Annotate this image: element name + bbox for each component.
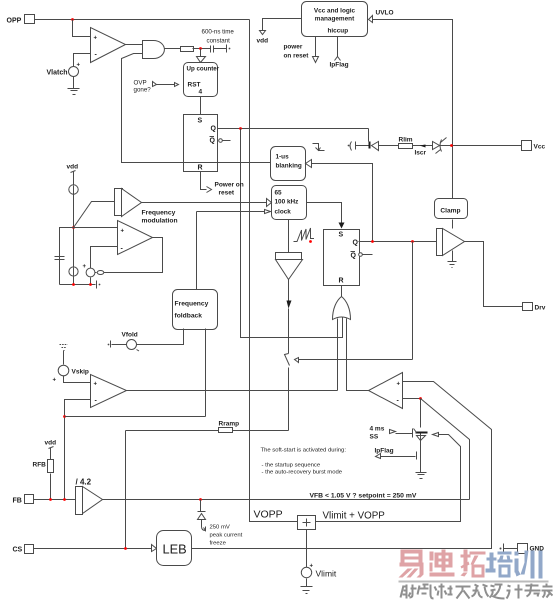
svg-text:modulation: modulation [142,218,178,225]
label VOPP [254,509,283,521]
watermark char xun [515,551,543,579]
block Clamp [435,199,468,219]
buffer LEB input [152,545,157,552]
svg-text:vdd: vdd [67,164,79,171]
wire Q1 bus down to OR [241,129,343,338]
wire driver junction down [412,242,414,360]
node OPP junction [71,18,74,21]
wire OPP row [35,19,250,21]
svg-text:UVLO: UVLO [376,10,394,17]
gate OR [333,297,351,320]
node latch2 Q blanking junction [371,240,374,243]
diode D1 [369,142,379,151]
watermark subtitle she pin he tian xian she ji zhuan jia [401,584,553,599]
ground driver [448,251,457,268]
svg-text:vdd: vdd [45,440,57,447]
svg-text:Q: Q [210,138,216,145]
svg-text:OPP: OPP [7,18,22,25]
resistor Rlim [399,137,413,149]
wire I1 to junction [73,195,75,228]
svg-text:Rlim: Rlim [399,137,413,144]
wire AND out to resistor [165,48,181,50]
svg-text:+: + [77,63,81,69]
watermark char tuo [461,550,486,578]
wire junction to op-amp2 plus [74,227,118,229]
svg-text:on reset: on reset [284,53,310,60]
block Up counter [184,63,220,97]
wire cs comp minus row [403,398,421,400]
bubble latch1 Qbar [219,139,231,143]
wire OVP to RST [157,83,179,87]
waveform sawtooth [294,228,315,243]
wire clock to ramp buffer [288,220,290,253]
svg-text:Iscr: Iscr [415,150,427,157]
svg-text:S: S [339,232,344,239]
node CS rramp junction [124,547,127,550]
svg-text:R: R [339,278,344,285]
rail bar symbol mid [97,281,101,289]
arrow Iscr [415,145,427,157]
node vskip minus junction [63,415,66,418]
svg-text:Vcc and logic: Vcc and logic [314,8,356,15]
buffer blanking input [306,160,312,168]
svg-text:VOPP: VOPP [254,509,283,521]
wire foldback to clock input2 [196,212,198,290]
arrow into Up counter [197,57,206,63]
wire switch control arrow [295,358,413,363]
wire latch1 Q row [218,128,369,130]
wire op-amp out to AND [126,44,143,46]
label vdd fb [45,440,57,449]
wire setpoint diagonal to vfb row [421,399,470,500]
label UVLO [376,10,394,17]
resistor RFB [33,460,54,473]
svg-text:LEB: LEB [163,542,187,557]
pin CS [13,545,34,554]
node Q1 bus junction [239,127,242,130]
node FB rfb junction [49,498,52,501]
svg-text:Power on: Power on [215,182,244,189]
node vfb diode junction [199,498,202,501]
capacitor 600ns [211,46,214,53]
resistor 600ns [181,47,194,52]
svg-text:4 ms: 4 ms [370,426,385,433]
current source I1 [69,185,78,195]
label soft-start note [261,448,347,476]
svg-text:Drv: Drv [535,305,546,312]
svg-text:vdd: vdd [257,38,269,45]
wire cs riser [125,431,127,549]
ground below Vlatch [68,89,80,95]
label VFB setpoint [310,493,417,500]
switch soft-start [285,354,290,431]
block LEB [157,531,192,566]
svg-text:OVP: OVP [134,80,147,87]
label power on reset [284,44,310,60]
wire OR input right [347,319,369,391]
svg-text:reset: reset [219,190,235,197]
capacitor hiccup [348,142,369,151]
wire bottom rail [60,284,96,286]
wire vskip comp minus [65,400,91,500]
svg-text:Rramp: Rramp [219,421,240,428]
svg-text:foldback: foldback [175,313,203,320]
wire OR input left [337,319,339,391]
wire Vlatch to ground [73,77,75,89]
wire I2 to rail [73,229,75,285]
pin Vcc [522,141,546,151]
wire ss transistor top [420,399,422,428]
svg-text:Frequency: Frequency [142,210,176,217]
wire junction diagonal to buffer [74,202,115,228]
pin OPP [7,15,35,25]
pin Drv [523,303,546,312]
svg-text:Up counter: Up counter [187,66,220,73]
wire IpFlag arrow up [335,37,341,61]
svg-text:Q: Q [351,253,357,260]
op-amp U1 OPP latch comparator [91,28,126,63]
label OVP gone? [134,80,152,94]
wire blanking input from vcc bus [312,164,373,242]
wire counter to latch1 S [200,97,202,115]
wire junction to foldback pin [65,416,206,418]
SECTION: watermark [399,550,553,599]
wire ground to vskip [63,351,65,365]
rail bar vfold [108,341,127,348]
svg-text:management: management [315,16,355,23]
svg-text:4: 4 [199,89,203,96]
svg-text:250 mV: 250 mV [210,525,230,531]
wire blanking row crossing latch1 [181,162,271,164]
node setpoint junction [419,397,422,400]
symbol feedback ellipse [95,271,104,275]
node FB vskip junction [63,498,66,501]
diode 250mV freeze [198,500,206,531]
bubble latch2 Qbar [359,253,373,257]
wire ramp to switch with arrow [287,280,292,354]
op-amp U6 current sense comparator [369,373,403,409]
wire vskip comp out to OR [127,390,338,392]
svg-text:Vskip: Vskip [72,369,89,376]
svg-text:CS: CS [13,547,23,554]
wire vskip to comparator [64,376,91,383]
divider /4.2 [76,478,103,515]
svg-text:- the startup sequence: - the startup sequence [262,463,321,469]
svg-text:+: + [310,564,314,570]
svg-text:VFB < 1.05 V ? setpoint = 250: VFB < 1.05 V ? setpoint = 250 mV [310,493,417,500]
label Frequency modulation [142,210,178,225]
source Vfold [122,332,140,352]
label vdd top [257,38,269,45]
wire junction left branch [60,228,74,285]
transistor QSS soft-start clamp [413,429,428,452]
wire fm buffer out to clock [142,202,267,204]
wire power on reset arrow [313,37,319,63]
label Power on reset [215,182,244,197]
wire OPP to op-amp + [73,20,91,37]
svg-text:RFB: RFB [33,462,47,469]
svg-text:RST: RST [188,82,201,89]
label 250 mV peak current freeze [210,525,243,547]
svg-text:1-us: 1-us [276,154,290,161]
wire latch2 Q row [359,241,437,243]
svg-text:IpFlag: IpFlag [330,62,349,69]
node rail source [89,283,92,286]
AND gate [143,41,165,59]
wire cap to rail [214,48,227,50]
label vdd mid [67,164,79,173]
svg-text:Clamp: Clamp [440,208,460,215]
wire UVLO [373,20,453,199]
thyristor Iscr clamp [433,138,522,154]
wire vdd to RFB [50,448,52,460]
svg-text:freeze: freeze [210,541,227,547]
label IpFlag top [330,62,349,69]
svg-text:constant: constant [207,38,231,45]
node driver input junction [411,240,414,243]
buffer ramp down triangle [276,253,303,280]
arrow clock input2 [197,210,271,214]
source Vlatch [47,63,81,77]
wire foldback to vfold [137,329,184,345]
svg-text:S: S [198,118,203,125]
wire op-amp minus to Vlatch [74,54,91,67]
wire IpFlag gate [376,452,417,460]
svg-text:R: R [198,165,203,172]
svg-text:power: power [284,44,303,51]
svg-text:+: + [53,378,57,384]
capacitor modulation [55,257,65,260]
latch U2 SR latch1 [184,115,218,172]
wire OPP bus vertical [250,20,298,522]
current source I2 [69,267,78,276]
wire cs comp plus path [192,382,492,549]
wire junction to counter arrow [200,49,202,57]
svg-text:+: + [397,382,401,388]
block Frequency foldback [173,290,218,330]
wire op-amp2 minus to source [91,247,118,269]
node 600ns junction [199,47,202,50]
wire resistor to cap [193,48,211,50]
svg-text:SS: SS [370,434,379,441]
ground ss [416,473,427,479]
svg-text:100 kHz: 100 kHz [275,199,299,206]
svg-text:/ 4.2: / 4.2 [76,478,92,487]
wire blanking to AND input 2 [122,54,181,163]
svg-text:gone?: gone? [134,87,152,94]
rail bar gnd [500,544,518,553]
buffer UVLO input [369,16,373,23]
svg-text:Vlimit: Vlimit [316,569,337,579]
svg-text:FB: FB [13,498,22,505]
svg-text:+: + [121,229,125,235]
wire source to rail [90,278,92,285]
block Vcc and logic management [302,2,368,37]
svg-text:Vfold: Vfold [122,332,138,339]
wire clock out to latch2 S [307,203,345,229]
wire latch1 R to power-on-reset [201,172,212,193]
svg-text:65: 65 [275,190,283,197]
wire vfb row [103,499,470,501]
source Vskip [53,365,89,383]
wire ss to ground [420,452,422,473]
svg-text:peak current: peak current [210,533,243,539]
svg-text:hiccup: hiccup [328,28,349,35]
wire driver out to Drv [465,242,523,307]
svg-text:IpFlag: IpFlag [375,448,394,455]
buffer OVP [153,82,157,87]
rail bar symbol [227,45,231,53]
wire rramp row [126,430,289,432]
node freq mod junction [72,226,75,229]
wire clamp to driver [452,220,454,229]
wire RFB to FB row [50,474,52,500]
adder sum block [298,516,316,530]
wire vlimit to ground [306,579,308,587]
resistor Rramp [219,421,240,433]
buffer frequency modulation [115,189,142,217]
buffer clock input1 [267,199,272,207]
wire diode to Rlim [379,145,399,147]
block 1-us blanking [271,147,306,181]
svg-text:600-ns time: 600-ns time [202,29,235,36]
watermark char yi [399,550,424,578]
svg-text:blanking: blanking [276,163,302,170]
svg-text:Vlatch: Vlatch [47,70,68,77]
svg-text:Vlimit + VOPP: Vlimit + VOPP [323,511,386,522]
node rail I2 [72,283,75,286]
svg-text:Q: Q [211,126,217,133]
label Vlimit + VOPP [323,511,386,522]
wire op-amp2 feedback [104,238,163,273]
svg-text:clock: clock [275,209,292,216]
source modulation offset [83,264,95,277]
svg-text:The soft-start is activated du: The soft-start is activated during: [261,448,347,454]
label 4 ms SS [370,426,385,441]
wire vdd stub top [260,19,302,35]
watermark char pei [486,552,513,578]
wire ss clamp arrow from adder [316,433,461,522]
source Vlimit [301,564,337,579]
label 600-ns time constant [202,29,235,45]
wire vdd rail [73,172,75,185]
wire Rlim to SCR [413,145,433,147]
pin FB [13,495,34,505]
pin GND [518,544,545,554]
latch U3 SR latch2 [324,230,360,286]
watermark char di [430,550,455,577]
svg-text:Q: Q [353,240,359,247]
node Vcc junction [450,144,453,147]
svg-text:+: + [83,264,87,270]
ground dotted vskip [60,345,68,351]
wire FB row [34,499,76,501]
block clock 65 100kHz [272,186,307,220]
watermark underline [399,581,549,583]
svg-text:+: + [94,36,98,42]
label IpFlag bottom [375,448,394,455]
wire SS input [390,430,413,434]
svg-text:Vcc: Vcc [534,144,546,151]
wire foldback right pin down [205,329,207,417]
svg-text:+: + [94,382,98,388]
svg-text:Frequency: Frequency [175,301,209,308]
symbol falling edge [313,144,325,151]
svg-text:- the auto-recovery burst mode: - the auto-recovery burst mode [262,470,343,476]
wire CS row [34,548,152,550]
buffer driver [437,229,465,256]
wire adder to vlimit [306,530,308,568]
op-amp U5 skip comparator [91,375,127,408]
ground vlimit [301,587,313,594]
op-amp U4 modulation [118,221,153,255]
wire Q1 to diode [368,129,370,142]
wire latch2 R to OR [341,286,343,297]
